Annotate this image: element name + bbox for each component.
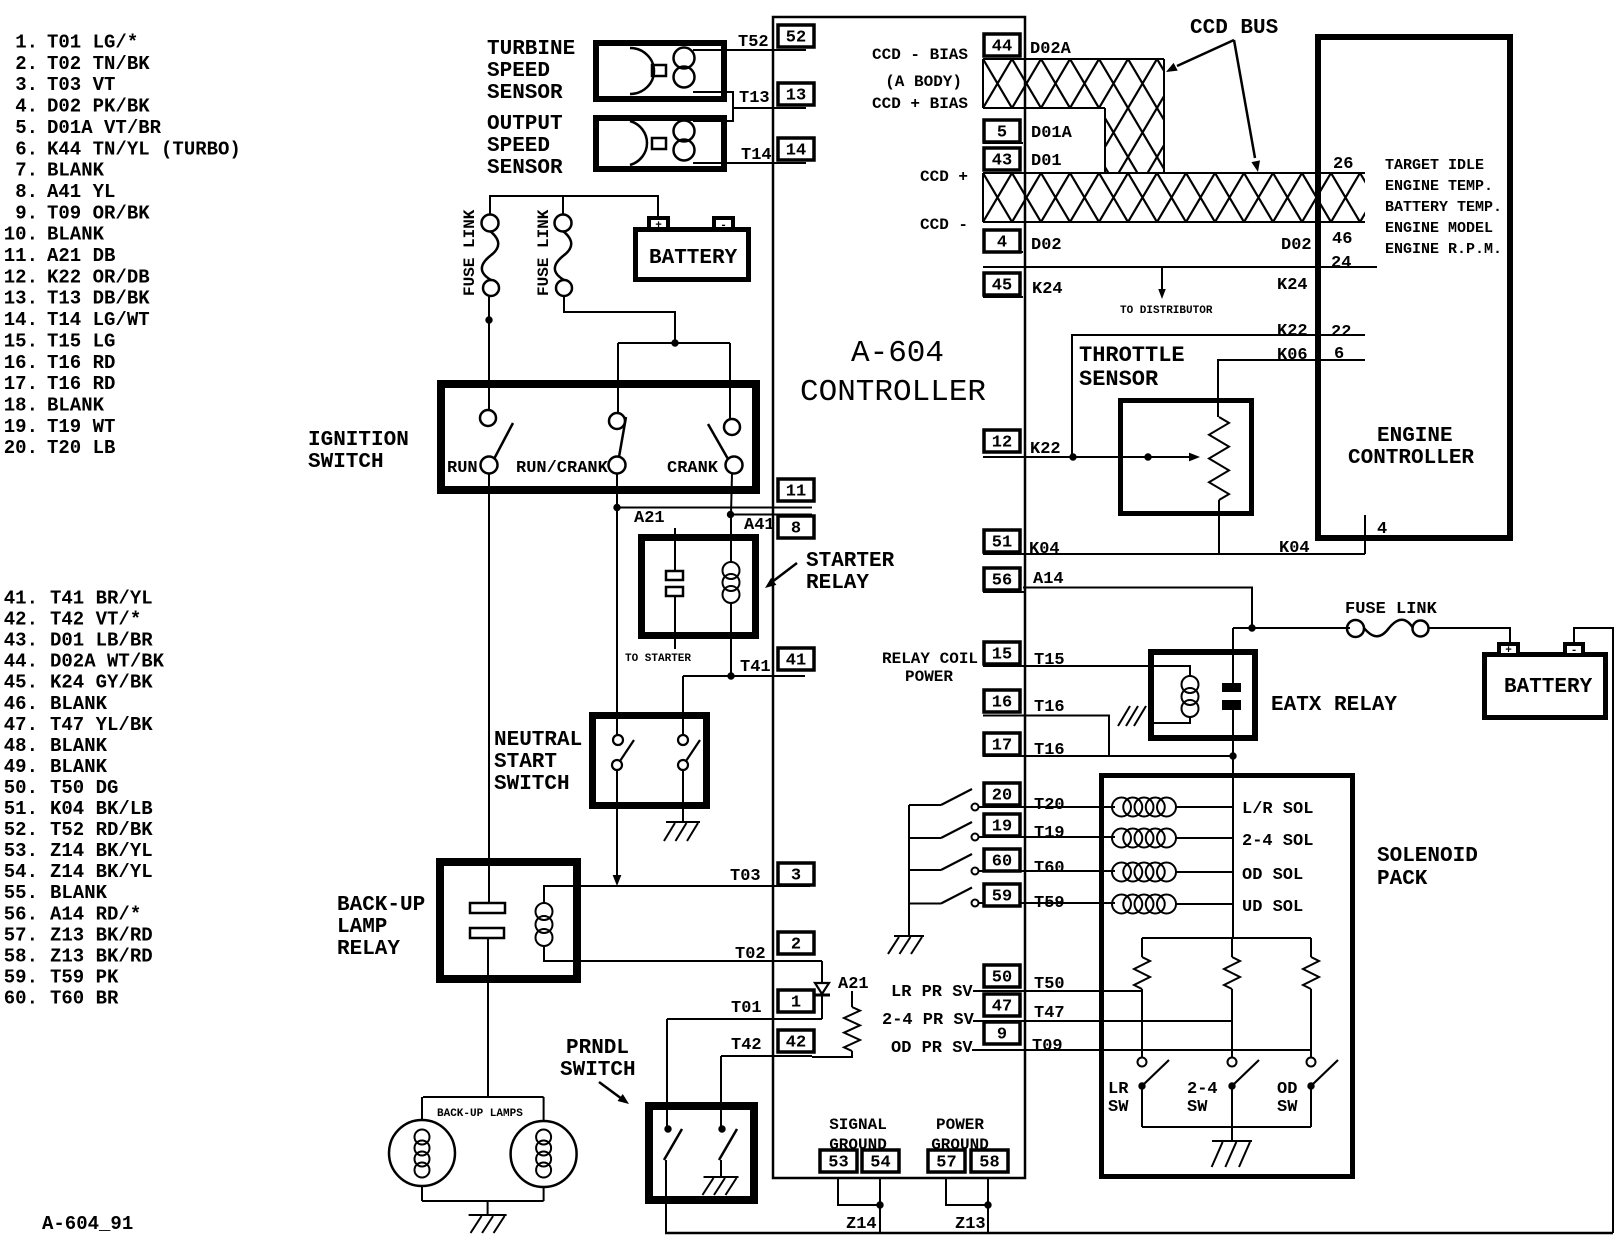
svg-text:43: 43	[992, 152, 1012, 171]
svg-text:BACK-UP LAMPS: BACK-UP LAMPS	[437, 1108, 523, 1120]
svg-text:SWITCH: SWITCH	[308, 451, 384, 474]
svg-text:A41: A41	[744, 516, 775, 535]
svg-text:D01: D01	[1031, 152, 1062, 171]
svg-text:6.: 6.	[15, 138, 38, 160]
svg-text:59: 59	[992, 888, 1012, 907]
svg-text:T01: T01	[731, 999, 762, 1018]
svg-text:15: 15	[992, 646, 1012, 665]
svg-text:54.: 54.	[4, 861, 38, 883]
svg-text:12: 12	[992, 434, 1012, 453]
svg-text:Z13 BK/RD: Z13 BK/RD	[50, 945, 153, 967]
svg-text:D02A WT/BK: D02A WT/BK	[50, 651, 165, 673]
svg-text:47: 47	[992, 998, 1012, 1017]
svg-text:PRNDL: PRNDL	[566, 1037, 629, 1060]
svg-text:A41 YL: A41 YL	[47, 181, 115, 203]
svg-text:T14: T14	[741, 146, 772, 165]
svg-text:8: 8	[791, 520, 801, 539]
svg-text:50: 50	[992, 969, 1012, 988]
svg-text:T02 TN/BK: T02 TN/BK	[47, 53, 150, 75]
svg-text:A21: A21	[634, 509, 665, 528]
svg-text:T50: T50	[1034, 975, 1065, 994]
svg-text:POWER: POWER	[905, 668, 953, 686]
svg-text:46.: 46.	[4, 693, 38, 715]
svg-text:K24: K24	[1032, 280, 1063, 299]
svg-text:NEUTRAL: NEUTRAL	[494, 729, 582, 752]
svg-text:26: 26	[1333, 155, 1353, 174]
svg-text:T16 RD: T16 RD	[47, 373, 115, 395]
svg-text:17.: 17.	[4, 373, 38, 395]
svg-text:RELAY: RELAY	[806, 572, 869, 595]
svg-text:TO DISTRIBUTOR: TO DISTRIBUTOR	[1120, 305, 1213, 317]
svg-text:T09: T09	[1032, 1037, 1063, 1056]
svg-text:T19 WT: T19 WT	[47, 416, 115, 438]
svg-text:LAMP: LAMP	[337, 916, 387, 939]
svg-text:D01A VT/BR: D01A VT/BR	[47, 117, 162, 139]
svg-text:K22: K22	[1277, 322, 1308, 341]
svg-text:17: 17	[992, 737, 1012, 756]
svg-text:7.: 7.	[15, 160, 38, 182]
svg-text:OD SOL: OD SOL	[1242, 866, 1303, 885]
svg-text:2.: 2.	[15, 53, 38, 75]
svg-text:4: 4	[997, 234, 1007, 253]
svg-text:T03 VT: T03 VT	[47, 74, 115, 96]
svg-text:OD PR SV: OD PR SV	[891, 1039, 973, 1058]
svg-text:T03: T03	[730, 867, 761, 886]
svg-text:A21 DB: A21 DB	[47, 245, 115, 267]
svg-text:CONTROLLER: CONTROLLER	[800, 375, 986, 410]
svg-text:D02: D02	[1031, 236, 1062, 255]
svg-text:K06: K06	[1277, 346, 1308, 365]
svg-text:2-4 SOL: 2-4 SOL	[1242, 832, 1313, 851]
svg-text:15.: 15.	[4, 330, 38, 352]
svg-text:16.: 16.	[4, 352, 38, 374]
svg-text:LR: LR	[1108, 1080, 1129, 1099]
svg-text:T15: T15	[1034, 651, 1065, 670]
svg-text:45.: 45.	[4, 672, 38, 694]
svg-text:TARGET IDLE: TARGET IDLE	[1385, 157, 1484, 174]
svg-text:START: START	[494, 751, 557, 774]
svg-text:-: -	[720, 220, 727, 232]
svg-text:60.: 60.	[4, 987, 38, 1009]
svg-text:D01 LB/BR: D01 LB/BR	[50, 630, 153, 652]
svg-text:T01 LG/*: T01 LG/*	[47, 32, 138, 54]
svg-text:BLANK: BLANK	[47, 224, 105, 246]
svg-text:4.: 4.	[15, 96, 38, 118]
svg-text:FUSE LINK: FUSE LINK	[535, 209, 553, 296]
svg-text:T41: T41	[740, 658, 771, 677]
svg-text:13.: 13.	[4, 288, 38, 310]
svg-text:A-604_91: A-604_91	[42, 1213, 133, 1235]
svg-text:20: 20	[992, 787, 1012, 806]
svg-text:49.: 49.	[4, 756, 38, 778]
svg-text:SPEED: SPEED	[487, 135, 550, 158]
svg-text:T20: T20	[1034, 796, 1065, 815]
svg-text:57: 57	[936, 1154, 956, 1173]
svg-text:BLANK: BLANK	[50, 693, 108, 715]
svg-text:T47: T47	[1034, 1004, 1065, 1023]
svg-text:BACK-UP: BACK-UP	[337, 894, 425, 917]
svg-text:FUSE LINK: FUSE LINK	[1345, 600, 1438, 619]
svg-text:56.: 56.	[4, 903, 38, 925]
svg-text:T42: T42	[731, 1036, 762, 1055]
svg-text:RUN/CRANK: RUN/CRANK	[516, 459, 609, 478]
svg-text:42: 42	[786, 1034, 806, 1053]
svg-text:T20 LB: T20 LB	[47, 437, 115, 459]
svg-text:STARTER: STARTER	[806, 550, 895, 573]
svg-text:L/R SOL: L/R SOL	[1242, 800, 1313, 819]
svg-text:Z13: Z13	[955, 1215, 986, 1234]
svg-text:K44 TN/YL (TURBO): K44 TN/YL (TURBO)	[47, 138, 241, 160]
svg-text:LR PR SV: LR PR SV	[891, 983, 973, 1002]
svg-text:5.: 5.	[15, 117, 38, 139]
svg-text:53.: 53.	[4, 840, 38, 862]
svg-text:(A BODY): (A BODY)	[885, 73, 962, 91]
svg-text:52: 52	[786, 29, 806, 48]
svg-text:2: 2	[791, 936, 801, 955]
svg-text:10.: 10.	[4, 224, 38, 246]
svg-text:44: 44	[992, 38, 1012, 57]
svg-text:ENGINE: ENGINE	[1377, 425, 1453, 448]
svg-text:CCD - BIAS: CCD - BIAS	[872, 46, 968, 64]
svg-text:22: 22	[1331, 323, 1351, 342]
svg-text:BLANK: BLANK	[50, 882, 108, 904]
svg-text:11: 11	[786, 483, 806, 502]
svg-text:CCD + BIAS: CCD + BIAS	[872, 95, 968, 113]
svg-text:T60: T60	[1034, 859, 1065, 878]
svg-text:1.: 1.	[15, 32, 38, 54]
svg-text:TURBINE: TURBINE	[487, 38, 575, 61]
svg-text:T52 RD/BK: T52 RD/BK	[50, 819, 153, 841]
svg-text:50.: 50.	[4, 777, 38, 799]
svg-text:OUTPUT: OUTPUT	[487, 113, 563, 136]
svg-text:T60 BR: T60 BR	[50, 987, 119, 1009]
svg-text:CONTROLLER: CONTROLLER	[1348, 447, 1474, 470]
svg-text:19.: 19.	[4, 416, 38, 438]
svg-text:K24 GY/BK: K24 GY/BK	[50, 672, 153, 694]
svg-text:Z14 BK/YL: Z14 BK/YL	[50, 840, 153, 862]
svg-text:T16 RD: T16 RD	[47, 352, 115, 374]
svg-text:BATTERY TEMP.: BATTERY TEMP.	[1385, 199, 1502, 216]
svg-text:11.: 11.	[4, 245, 38, 267]
svg-text:2-4 PR SV: 2-4 PR SV	[882, 1011, 975, 1030]
svg-text:52.: 52.	[4, 819, 38, 841]
svg-text:57.: 57.	[4, 924, 38, 946]
svg-text:K04: K04	[1029, 540, 1060, 559]
svg-text:Z14 BK/YL: Z14 BK/YL	[50, 861, 153, 883]
svg-text:T15 LG: T15 LG	[47, 330, 115, 352]
svg-text:6: 6	[1334, 345, 1344, 364]
svg-text:SW: SW	[1277, 1098, 1298, 1117]
svg-text:1: 1	[791, 994, 801, 1013]
svg-text:BLANK: BLANK	[50, 756, 108, 778]
svg-text:8.: 8.	[15, 181, 38, 203]
svg-text:BLANK: BLANK	[47, 394, 105, 416]
svg-text:BATTERY: BATTERY	[1504, 676, 1593, 699]
svg-text:T50 DG: T50 DG	[50, 777, 118, 799]
svg-text:14: 14	[786, 142, 806, 161]
svg-text:T16: T16	[1034, 741, 1065, 760]
svg-text:T42 VT/*: T42 VT/*	[50, 609, 141, 631]
svg-text:41: 41	[786, 652, 806, 671]
svg-text:2-4: 2-4	[1187, 1080, 1218, 1099]
svg-text:55.: 55.	[4, 882, 38, 904]
svg-text:T14 LG/WT: T14 LG/WT	[47, 309, 150, 331]
svg-text:43.: 43.	[4, 630, 38, 652]
svg-text:SPEED: SPEED	[487, 60, 550, 83]
svg-text:5: 5	[997, 124, 1007, 143]
svg-text:D02: D02	[1281, 236, 1312, 255]
svg-text:K22 OR/DB: K22 OR/DB	[47, 266, 150, 288]
svg-text:SENSOR: SENSOR	[487, 157, 563, 180]
svg-text:47.: 47.	[4, 714, 38, 736]
svg-text:42.: 42.	[4, 609, 38, 631]
svg-text:16: 16	[992, 694, 1012, 713]
svg-text:RUN: RUN	[447, 459, 478, 478]
svg-text:12.: 12.	[4, 266, 38, 288]
svg-text:K04 BK/LB: K04 BK/LB	[50, 798, 153, 820]
svg-text:53: 53	[828, 1154, 848, 1173]
svg-text:PACK: PACK	[1377, 868, 1428, 891]
svg-text:SW: SW	[1187, 1098, 1208, 1117]
svg-text:60: 60	[992, 853, 1012, 872]
svg-text:IGNITION: IGNITION	[308, 429, 409, 452]
svg-text:EATX RELAY: EATX RELAY	[1271, 694, 1397, 717]
svg-text:9.: 9.	[15, 202, 38, 224]
svg-text:3.: 3.	[15, 74, 38, 96]
svg-text:RELAY: RELAY	[337, 938, 400, 961]
svg-text:SIGNAL: SIGNAL	[829, 1116, 887, 1134]
svg-text:44.: 44.	[4, 651, 38, 673]
svg-text:13: 13	[786, 87, 806, 106]
svg-text:CCD BUS: CCD BUS	[1190, 17, 1278, 40]
svg-text:45: 45	[992, 277, 1012, 296]
svg-text:3: 3	[791, 867, 801, 886]
svg-text:48.: 48.	[4, 735, 38, 757]
svg-text:51: 51	[992, 534, 1012, 553]
svg-text:24: 24	[1331, 254, 1351, 273]
svg-text:SW: SW	[1108, 1098, 1129, 1117]
svg-text:T13 DB/BK: T13 DB/BK	[47, 288, 150, 310]
svg-text:K24: K24	[1277, 276, 1308, 295]
svg-text:9: 9	[997, 1026, 1007, 1045]
svg-text:+: +	[1505, 645, 1512, 657]
svg-text:SENSOR: SENSOR	[487, 82, 563, 105]
svg-text:CCD +: CCD +	[920, 168, 968, 186]
svg-text:18.: 18.	[4, 394, 38, 416]
svg-text:T13: T13	[739, 89, 770, 108]
svg-text:THROTTLE: THROTTLE	[1079, 343, 1185, 368]
svg-text:UD SOL: UD SOL	[1242, 898, 1303, 917]
svg-text:OD: OD	[1277, 1080, 1297, 1099]
svg-text:T09 OR/BK: T09 OR/BK	[47, 202, 150, 224]
svg-text:Z14: Z14	[846, 1215, 877, 1234]
svg-text:T59 PK: T59 PK	[50, 966, 119, 988]
svg-text:BATTERY: BATTERY	[649, 247, 738, 270]
svg-text:19: 19	[992, 818, 1012, 837]
svg-text:K22: K22	[1030, 440, 1061, 459]
svg-text:+: +	[655, 220, 662, 232]
svg-text:58.: 58.	[4, 945, 38, 967]
svg-text:51.: 51.	[4, 798, 38, 820]
svg-text:SOLENOID: SOLENOID	[1377, 845, 1478, 868]
svg-text:K04: K04	[1279, 539, 1310, 558]
svg-text:T52: T52	[738, 33, 769, 52]
svg-text:T02: T02	[735, 945, 766, 964]
svg-text:ENGINE TEMP.: ENGINE TEMP.	[1385, 178, 1493, 195]
svg-text:Z13 BK/RD: Z13 BK/RD	[50, 924, 153, 946]
svg-text:D01A: D01A	[1031, 124, 1073, 143]
svg-text:FUSE LINK: FUSE LINK	[461, 209, 479, 296]
svg-text:TO STARTER: TO STARTER	[625, 653, 691, 665]
svg-text:ENGINE MODEL: ENGINE MODEL	[1385, 220, 1493, 237]
svg-text:CCD -: CCD -	[920, 216, 968, 234]
svg-text:58: 58	[979, 1154, 999, 1173]
svg-text:SWITCH: SWITCH	[560, 1059, 636, 1082]
svg-text:54: 54	[870, 1154, 890, 1173]
svg-text:T16: T16	[1034, 698, 1065, 717]
svg-text:20.: 20.	[4, 437, 38, 459]
svg-text:SENSOR: SENSOR	[1079, 367, 1159, 392]
svg-text:14.: 14.	[4, 309, 38, 331]
svg-text:A14: A14	[1033, 570, 1064, 589]
svg-text:T41 BR/YL: T41 BR/YL	[50, 588, 153, 610]
svg-text:59.: 59.	[4, 966, 38, 988]
svg-text:T59: T59	[1034, 894, 1065, 913]
svg-text:56: 56	[992, 572, 1012, 591]
svg-text:D02 PK/BK: D02 PK/BK	[47, 96, 150, 118]
svg-text:T19: T19	[1034, 824, 1065, 843]
svg-text:T47 YL/BK: T47 YL/BK	[50, 714, 153, 736]
svg-text:41.: 41.	[4, 588, 38, 610]
svg-text:ENGINE R.P.M.: ENGINE R.P.M.	[1385, 241, 1502, 258]
svg-text:-: -	[1571, 645, 1578, 657]
svg-text:POWER: POWER	[936, 1116, 984, 1134]
svg-text:A21: A21	[838, 975, 869, 994]
svg-text:A14 RD/*: A14 RD/*	[50, 903, 141, 925]
svg-text:CRANK: CRANK	[667, 459, 719, 478]
svg-text:BLANK: BLANK	[50, 735, 108, 757]
svg-text:SWITCH: SWITCH	[494, 773, 570, 796]
svg-text:BLANK: BLANK	[47, 160, 105, 182]
svg-text:46: 46	[1332, 230, 1352, 249]
svg-text:A-604: A-604	[851, 336, 944, 371]
svg-text:RELAY COIL: RELAY COIL	[882, 650, 978, 668]
svg-text:D02A: D02A	[1030, 40, 1072, 59]
